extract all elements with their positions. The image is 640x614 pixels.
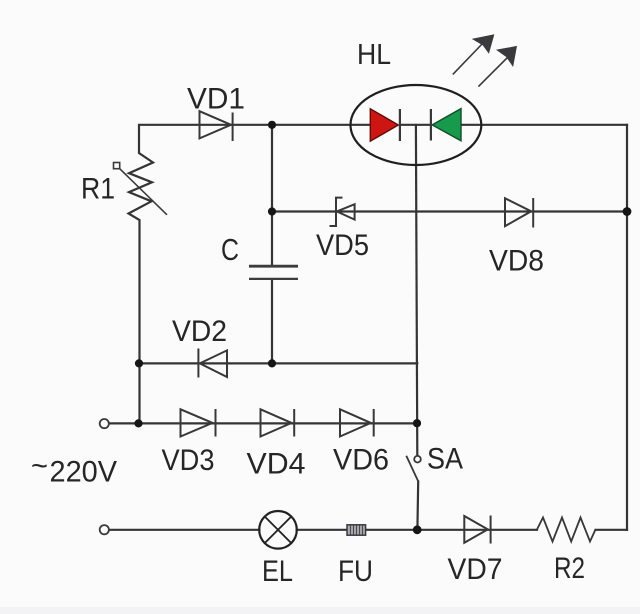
wire top-right from green LED to right corner: [461, 124, 627, 126]
wire switch lower vertical: [416, 482, 419, 530]
svg-text:HL: HL: [357, 39, 391, 71]
wire VD5/VD8 row: [272, 210, 627, 212]
capacitor C: [249, 266, 298, 279]
svg-text:EL: EL: [262, 555, 293, 588]
wire VD3 row: [109, 422, 417, 424]
terminal upper (~220V): [100, 419, 109, 428]
zener diode VD5: [330, 198, 355, 226]
svg-text:FU: FU: [338, 555, 373, 588]
wire VD2 row: [139, 362, 417, 364]
svg-text:VD3: VD3: [162, 444, 215, 477]
fuse FU: [347, 525, 366, 535]
svg-text:VD7: VD7: [448, 553, 503, 586]
wire capacitor branch lower: [271, 280, 273, 364]
wire top segment inside HL (red bar to green bar): [400, 124, 431, 126]
svg-text:C: C: [221, 232, 239, 267]
lamp EL: [259, 511, 297, 549]
svg-text:VD6: VD6: [333, 444, 389, 477]
wire bottom row: [109, 529, 259, 531]
svg-text:VD8: VD8: [489, 245, 544, 278]
light emission arrow 2: [478, 46, 517, 87]
diode VD3: [181, 409, 216, 437]
svg-text:VD4: VD4: [247, 448, 306, 481]
wire bottom row (R2 to corner): [596, 529, 628, 531]
junction node at VD1 output: [268, 121, 276, 129]
svg-text:VD1: VD1: [187, 83, 245, 116]
junction node cap top / VD5 row: [268, 207, 276, 215]
svg-text:VD2: VD2: [172, 315, 227, 348]
wire bottom row (EL to R2): [297, 529, 537, 531]
junction node left vertical / VD2 row: [135, 359, 143, 367]
svg-text:SA: SA: [427, 443, 463, 476]
wire top-left corner, left vertical with R1 zigzag: [129, 125, 371, 423]
diode VD1: [200, 111, 233, 141]
diode VD6: [340, 409, 374, 437]
indicator HL ellipse: [351, 85, 482, 165]
svg-text:R1: R1: [81, 173, 115, 206]
diode VD7: [464, 516, 490, 544]
switch SA: [406, 456, 421, 482]
junction node right wire / VD8 row: [623, 207, 632, 216]
svg-text:~: ~: [31, 450, 48, 483]
diode VD4: [261, 409, 295, 437]
diode VD8: [505, 198, 533, 228]
wire right vertical: [626, 125, 628, 530]
svg-text:R2: R2: [554, 552, 585, 585]
wire capacitor branch upper: [271, 125, 273, 265]
junction node cap branch / VD2 row: [268, 359, 276, 367]
wire HL vertical to switch: [416, 125, 417, 455]
diode VD2: [198, 349, 227, 378]
terminal lower (~220V): [100, 525, 109, 534]
light emission arrow 1: [453, 34, 495, 74]
LED green (inside HL): [431, 109, 461, 141]
resistor R1 slider arrow: [114, 163, 168, 215]
junction node SA vertical / VD3 row: [413, 419, 421, 427]
resistor R2: [537, 518, 596, 542]
junction node SA vertical / bottom row: [413, 525, 422, 534]
junction node left vertical / VD3 row: [134, 419, 142, 427]
svg-text:220V: 220V: [50, 455, 118, 488]
LED red (inside HL): [370, 109, 400, 141]
svg-text:VD5: VD5: [316, 229, 369, 262]
